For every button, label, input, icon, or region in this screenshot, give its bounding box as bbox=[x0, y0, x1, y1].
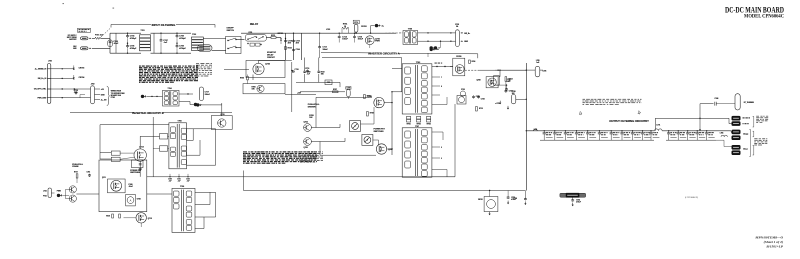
electrolytic capacitor C712 bbox=[353, 20, 359, 24]
bracket 2 bbox=[753, 130, 754, 132]
capacitor C720 bbox=[346, 87, 351, 90]
svg-text:J702: J702 bbox=[91, 84, 95, 86]
mosfet Q702 bbox=[253, 63, 264, 74]
svg-text:STAGE: STAGE bbox=[72, 165, 79, 168]
svg-text:SWITCHES: SWITCHES bbox=[130, 172, 141, 174]
svg-text:DC SUPPLY: DC SUPPLY bbox=[68, 35, 77, 37]
capacitor C703 bbox=[109, 33, 111, 53]
service note paragraph bbox=[139, 66, 141, 67]
wire box to bus bbox=[489, 191, 491, 197]
svg-text:.1uF: .1uF bbox=[307, 74, 310, 76]
svg-text:+ C729: + C729 bbox=[495, 103, 500, 105]
ground below box bbox=[489, 212, 491, 214]
output rail after L701 bbox=[662, 130, 731, 132]
resistor R712 bbox=[505, 77, 507, 82]
capacitor C755 bbox=[507, 191, 509, 197]
connector terminal A9 minus bbox=[732, 145, 741, 150]
capacitor C708 bbox=[176, 33, 177, 34]
top rail to inverter A bbox=[241, 32, 396, 34]
note text block push-pull bbox=[300, 151, 302, 154]
snubber box R718 bbox=[160, 146, 168, 151]
vertical link x215 bbox=[215, 129, 217, 165]
filter capacitor C731 bbox=[554, 130, 555, 131]
svg-text:TP701: TP701 bbox=[406, 124, 410, 126]
left rail inverter B bbox=[152, 117, 154, 177]
svg-text:ON_OFF_CTRL: ON_OFF_CTRL bbox=[34, 89, 46, 91]
test point pair TP703 bbox=[427, 116, 431, 119]
svg-text:C725: C725 bbox=[481, 99, 485, 101]
wire ON_OFF_CTRL bbox=[47, 88, 50, 90]
snubber capacitor row C750 C751 C752 bbox=[169, 176, 170, 177]
scan speck 1 bbox=[63, 3, 64, 4]
svg-text:PWM: PWM bbox=[57, 191, 62, 193]
vertical rail x293 bbox=[293, 33, 295, 60]
svg-text:P701: P701 bbox=[111, 97, 115, 99]
svg-text:100uF: 100uF bbox=[342, 39, 348, 41]
inverter circuitry A label line bbox=[321, 51, 371, 54]
svg-text:DRIVER: DRIVER bbox=[308, 107, 316, 109]
svg-text:R723: R723 bbox=[288, 47, 292, 49]
svg-text:100uF: 100uF bbox=[358, 39, 364, 41]
capacitor C711 bbox=[293, 40, 295, 41]
wire top feed bbox=[259, 59, 292, 61]
snubber box R717 bbox=[160, 134, 168, 139]
wire PWR GND to J702 bbox=[62, 97, 90, 99]
ground below C755 bbox=[507, 201, 509, 203]
T706 output wires bbox=[195, 191, 216, 193]
wire A+_SENSE_HI bbox=[47, 68, 50, 70]
dash-dot output wire bbox=[465, 69, 480, 71]
svg-text:4700pF: 4700pF bbox=[179, 37, 186, 40]
pass transistor Q701 bbox=[365, 36, 374, 45]
off-page connector T703 top bbox=[430, 48, 433, 51]
wire to startup transistor bbox=[202, 104, 222, 106]
svg-text:PWR: PWR bbox=[375, 41, 380, 43]
svg-text:Q711: Q711 bbox=[102, 177, 106, 179]
svg-text:MPN/09TEM8—O: MPN/09TEM8—O bbox=[754, 236, 783, 240]
off-page connector output B bbox=[194, 103, 197, 106]
capacitor C704 bbox=[127, 33, 128, 34]
svg-text:CR704: CR704 bbox=[79, 76, 85, 79]
ground return bus bbox=[405, 190, 525, 192]
svg-text:L701: L701 bbox=[656, 125, 660, 127]
gate network box R716 bbox=[111, 157, 120, 161]
resistor R705 bbox=[247, 77, 249, 80]
transistor Q703 bbox=[257, 85, 264, 92]
svg-text:.01uF: .01uF bbox=[128, 186, 132, 188]
connector terminal A+ MAIN bbox=[732, 116, 741, 121]
svg-text:R701: R701 bbox=[271, 35, 275, 37]
wires crossing J703 bbox=[47, 68, 50, 70]
wire snubber to T705 bbox=[168, 135, 169, 137]
T705 secondary wires bbox=[187, 128, 216, 130]
svg-text:C753: C753 bbox=[87, 172, 91, 174]
wire label near taps bbox=[435, 62, 437, 65]
scan speck 2 bbox=[113, 8, 115, 9]
svg-text:B/1501+LP: B/1501+LP bbox=[765, 244, 783, 248]
long bus y177 bbox=[147, 176, 455, 178]
wire driver top rail bbox=[300, 91, 345, 93]
capacitor C754 bbox=[572, 198, 574, 200]
inverter circuitry B label line bbox=[70, 111, 134, 113]
bracket 1 bbox=[753, 115, 754, 117]
filter capacitor C734 bbox=[587, 130, 588, 131]
svg-text:C751: C751 bbox=[177, 179, 181, 181]
capacitor C714 bbox=[338, 33, 340, 35]
capacitor C716 bbox=[74, 92, 75, 94]
svg-text:4700pF: 4700pF bbox=[179, 47, 186, 50]
ground below C754 bbox=[572, 203, 574, 205]
section label INPUT FILTERING with bracket bbox=[111, 24, 151, 26]
transformer T707 bbox=[402, 128, 432, 177]
T702 lower winding bbox=[198, 45, 213, 52]
svg-text:R713: R713 bbox=[479, 108, 483, 110]
snubber verticals under inverter A line bbox=[304, 58, 306, 71]
filter capacitor C745 bbox=[697, 130, 698, 131]
wire to thermistor branch bbox=[699, 104, 701, 130]
wire T706 primary bbox=[147, 193, 172, 195]
mosfet Q711 bbox=[111, 180, 122, 191]
svg-text:SW_B+_HI: SW_B+_HI bbox=[38, 78, 47, 80]
svg-text:C760: C760 bbox=[307, 72, 311, 74]
T703 secondary out wire bbox=[432, 66, 453, 68]
connector J702 box bbox=[91, 86, 95, 104]
pointer glyph 1 bbox=[579, 111, 582, 115]
wire secondary to bus bbox=[495, 69, 526, 71]
T707 secondary taps bbox=[432, 131, 443, 133]
diode CR704 bbox=[73, 78, 75, 80]
svg-text:T705: T705 bbox=[178, 121, 182, 123]
filter capacitor C732 bbox=[565, 130, 566, 131]
svg-text:.1uF: .1uF bbox=[74, 92, 77, 94]
svg-text:INPUT FROM: INPUT FROM bbox=[67, 37, 77, 39]
vertical link x243 bbox=[243, 171, 245, 191]
capacitor C710 bbox=[285, 40, 287, 41]
transistor Q709 bbox=[69, 186, 76, 193]
wire Q713 drain bbox=[139, 136, 141, 149]
svg-text:A+_SN: A+_SN bbox=[101, 99, 107, 102]
capacitor C764 bbox=[293, 48, 295, 51]
capacitor C705 bbox=[127, 44, 129, 45]
svg-text:220uF: 220uF bbox=[205, 94, 211, 96]
svg-text:OUTPUT FILTERING CIRCUITRY: OUTPUT FILTERING CIRCUITRY bbox=[609, 119, 649, 123]
diode CR703 bbox=[73, 68, 75, 70]
wire +14V rail bbox=[285, 94, 316, 96]
test point pair TP702 bbox=[417, 116, 421, 119]
capacitor C753 bbox=[89, 174, 91, 175]
mosfet Q706 bbox=[374, 97, 384, 107]
svg-text:RELAY: RELAY bbox=[250, 23, 259, 26]
vertical rail x285 bbox=[285, 33, 287, 60]
resistor R707 bbox=[333, 91, 339, 93]
wire bank to A9 minus bbox=[716, 139, 724, 141]
svg-text:100uF: 100uF bbox=[323, 49, 329, 51]
svg-text:T701: T701 bbox=[141, 30, 145, 32]
arrow SW B+ bbox=[461, 32, 463, 34]
off-page connector pair below bbox=[430, 46, 433, 49]
svg-text:T706: T706 bbox=[180, 186, 184, 188]
zener VR702 bbox=[487, 200, 496, 209]
gate drive wires from left bbox=[100, 152, 111, 154]
filter capacitor C743 bbox=[678, 130, 679, 131]
svg-text:A+_SENSE_HI: A+_SENSE_HI bbox=[35, 67, 47, 70]
wire y82 with boxed label bbox=[296, 81, 340, 83]
svg-text:R707: R707 bbox=[333, 89, 337, 91]
Q702 enclosure box bbox=[246, 61, 285, 78]
transistor Q705 bbox=[304, 138, 312, 146]
svg-text:.01uF: .01uF bbox=[113, 43, 119, 45]
gate network box R715 bbox=[111, 151, 120, 155]
dashed leader to bracket bbox=[101, 28, 111, 37]
filter capacitor C733 bbox=[576, 130, 577, 131]
svg-text:CR705: CR705 bbox=[456, 56, 461, 58]
svg-text:R720: R720 bbox=[106, 215, 110, 217]
filter box rails bbox=[110, 32, 141, 34]
svg-text:Q702: Q702 bbox=[265, 64, 270, 66]
capacitor C718 bbox=[291, 70, 292, 71]
arrow ground out bbox=[461, 40, 463, 42]
gate wire to Q702 bbox=[224, 69, 249, 71]
secondary frame wires bbox=[454, 104, 456, 177]
electrolytic capacitor C717 bbox=[199, 87, 203, 101]
source capacitor C762 bbox=[139, 162, 141, 165]
relay coil parts bbox=[250, 43, 254, 46]
svg-text:Q705: Q705 bbox=[304, 147, 308, 149]
source capacitor C763 bbox=[139, 167, 141, 170]
svg-text:CR702: CR702 bbox=[361, 26, 367, 28]
svg-text:4700pF: 4700pF bbox=[130, 37, 137, 40]
svg-text:T702: T702 bbox=[192, 34, 196, 36]
svg-text:CR703: CR703 bbox=[79, 67, 85, 69]
svg-text:INVERTER CIRCUITRY B: INVERTER CIRCUITRY B bbox=[132, 111, 164, 115]
vertical rail x301 bbox=[301, 33, 303, 60]
wire to startup connector bbox=[62, 88, 90, 90]
current sense A1 bbox=[126, 194, 136, 206]
wire driver to gate box bbox=[76, 193, 99, 195]
svg-text:R719: R719 bbox=[74, 172, 78, 174]
svg-text:R709: R709 bbox=[370, 113, 374, 115]
rectifier diode CR706 bbox=[457, 96, 466, 105]
resistor R724 bbox=[469, 60, 471, 63]
svg-text:.1uF: .1uF bbox=[178, 180, 181, 182]
driver IC U703 bbox=[362, 135, 373, 146]
resistor R723 bbox=[285, 47, 287, 50]
vertical bus to gnd tail bbox=[524, 191, 526, 199]
J702 output stubs bbox=[95, 88, 101, 90]
svg-text:SW_B+: SW_B+ bbox=[464, 33, 470, 35]
svg-text:R705: R705 bbox=[240, 77, 244, 79]
wire SW_B+_HI bbox=[47, 77, 50, 79]
regulator group box bbox=[484, 197, 498, 212]
svg-text:C712: C712 bbox=[354, 22, 358, 24]
svg-text:RT_THERMIS: RT_THERMIS bbox=[744, 102, 754, 104]
svg-text:4700pF: 4700pF bbox=[130, 47, 137, 50]
svg-text:C752: C752 bbox=[186, 179, 190, 181]
wire Q713 source bbox=[139, 161, 141, 177]
connector terminal A+ AUX bbox=[732, 121, 741, 126]
resistor R713 bbox=[476, 107, 478, 112]
thermistor RT701 bbox=[735, 94, 740, 110]
capacitor C722 bbox=[505, 90, 507, 91]
mosfet Q707 bbox=[376, 144, 386, 154]
connector terminal A9 plus bbox=[730, 131, 733, 133]
svg-text:.1uF: .1uF bbox=[187, 180, 190, 182]
note connects to rf power board bbox=[756, 115, 759, 118]
T708 secondary wires bbox=[418, 32, 456, 34]
capacitor C707 bbox=[160, 33, 161, 34]
output rail bbox=[526, 130, 654, 132]
resistor R710 bbox=[364, 95, 366, 99]
svg-text:J703: J703 bbox=[48, 61, 52, 63]
filter capacitor C742 bbox=[668, 130, 669, 131]
svg-text:A: A bbox=[130, 198, 132, 202]
svg-text:C726: C726 bbox=[543, 70, 547, 72]
svg-text:B+: B+ bbox=[437, 49, 439, 51]
capacitor C709 bbox=[176, 44, 178, 45]
svg-text:R722: R722 bbox=[321, 72, 325, 74]
feed to A+ AUX connector bbox=[728, 118, 730, 123]
svg-text:L705: L705 bbox=[536, 60, 540, 62]
mosfet Q711 box bbox=[108, 179, 126, 193]
capacitor C713 bbox=[319, 33, 321, 46]
T703 secondary taps bbox=[432, 76, 440, 78]
svg-text:Q708: Q708 bbox=[476, 80, 480, 82]
vertical bus x526 bbox=[525, 63, 527, 191]
small box U705 top bbox=[132, 160, 144, 168]
transistor Q704 bbox=[304, 124, 312, 132]
capacitor C715 bbox=[354, 33, 356, 35]
svg-text:(L702 SHIELD): (L702 SHIELD) bbox=[685, 197, 698, 199]
svg-text:C728: C728 bbox=[512, 91, 516, 93]
output ground rail bbox=[540, 139, 654, 141]
wire plug to fuse bbox=[89, 37, 91, 39]
rectifier box CR705 bbox=[453, 58, 465, 76]
svg-text:10: 10 bbox=[344, 26, 346, 28]
gate feed wires bbox=[316, 96, 372, 98]
resistor R701 bbox=[271, 37, 276, 39]
note text combined output bbox=[583, 98, 586, 101]
filter capacitor C737 bbox=[621, 130, 622, 131]
filter capacitor C735 bbox=[599, 130, 600, 131]
svg-text:Q712: Q712 bbox=[148, 218, 152, 220]
note connects to rf power amplifier bbox=[754, 137, 757, 140]
off-page connector below C717 bbox=[196, 103, 199, 106]
output ground rail 2 bbox=[666, 139, 716, 141]
wire to startup box bbox=[221, 103, 223, 116]
interconnect brace bbox=[107, 86, 110, 105]
service note paragraph 2 bbox=[243, 151, 247, 152]
dash-dot wire to T708 bbox=[385, 32, 403, 34]
capacitor C723 round bbox=[460, 91, 465, 96]
wires FETs to transformer bus bbox=[384, 102, 392, 104]
resistor R714 bbox=[494, 76, 500, 85]
svg-text:MODEL CPN6064C: MODEL CPN6064C bbox=[744, 13, 784, 19]
filter capacitor C736 bbox=[611, 130, 612, 131]
wires driver outputs bbox=[311, 127, 340, 129]
svg-text:.1uF: .1uF bbox=[169, 180, 172, 182]
off-page connector from PWM A bbox=[141, 95, 144, 98]
mosfet Q712 bbox=[136, 213, 146, 223]
T704 secondary wires bbox=[179, 93, 193, 95]
svg-text:SWITCHES: SWITCHES bbox=[374, 131, 385, 133]
inverter C box bbox=[99, 160, 147, 212]
filter capacitor C738 bbox=[632, 130, 633, 131]
svg-text:C764: C764 bbox=[296, 48, 300, 51]
resistor R709 bbox=[367, 112, 369, 117]
connector J701 sense header bbox=[47, 64, 50, 104]
resistor R720 bbox=[112, 214, 114, 218]
connector P701 boxed label bbox=[78, 28, 91, 32]
ground symbol 2 bbox=[507, 106, 509, 108]
svg-text:C756: C756 bbox=[513, 198, 517, 200]
shielded inductor L702 bbox=[560, 193, 586, 197]
filter capacitor C746 bbox=[706, 130, 707, 131]
bracket tall bbox=[749, 129, 750, 131]
connector terminal A9 pair2 bbox=[732, 135, 741, 140]
filter capacitor C740 bbox=[650, 130, 651, 131]
ground symbol bbox=[499, 101, 501, 103]
pointer glyph 2 bbox=[638, 111, 641, 115]
svg-text:SWITCH: SWITCH bbox=[227, 30, 235, 32]
parts list text column bbox=[196, 62, 199, 65]
svg-text:C718: C718 bbox=[295, 69, 299, 71]
svg-text:Q704: Q704 bbox=[304, 120, 308, 123]
bracket 3 bbox=[753, 144, 754, 146]
capacitor C725 bbox=[478, 95, 480, 96]
off-page connector A+ to sheet 2 bbox=[370, 26, 372, 34]
capacitor C719 bbox=[307, 70, 309, 71]
svg-text:PWR_GND: PWR_GND bbox=[38, 97, 47, 99]
svg-text:C761: C761 bbox=[327, 82, 331, 84]
svg-text:CIRCUIT: CIRCUIT bbox=[267, 57, 276, 59]
connector terminal A9 minus b bbox=[732, 150, 741, 155]
capacitor C727 bbox=[506, 87, 508, 90]
wire rail to T703 bbox=[401, 58, 403, 92]
svg-text:C719: C719 bbox=[305, 68, 309, 70]
driver stage box bbox=[243, 84, 285, 94]
resistor R721 bbox=[119, 214, 121, 218]
T703 primary feed wires bbox=[392, 91, 402, 93]
vertical rail x291.8 bbox=[291, 62, 293, 112]
svg-text:VR702: VR702 bbox=[478, 199, 483, 201]
filter capacitor C730 bbox=[544, 130, 545, 131]
test point pair TP701 bbox=[407, 116, 411, 119]
svg-text:INVERTER CIRCUITRY A: INVERTER CIRCUITRY A bbox=[368, 52, 399, 56]
transistor Q710 bbox=[69, 195, 76, 202]
svg-text:INPUT FILTERING: INPUT FILTERING bbox=[152, 23, 176, 27]
svg-text:TP703: TP703 bbox=[426, 124, 430, 126]
svg-text:L703: L703 bbox=[326, 29, 330, 31]
driver IC U702 bbox=[350, 121, 361, 132]
transformer T703 bbox=[402, 64, 432, 114]
svg-text:F701 15A: F701 15A bbox=[95, 34, 104, 37]
svg-text:U705: U705 bbox=[137, 198, 141, 200]
filter mid box rails bbox=[151, 32, 192, 34]
wire PWR_GND bbox=[47, 97, 50, 99]
filter capacitor C744 bbox=[687, 130, 688, 131]
capacitor C724 bbox=[473, 95, 475, 96]
filter capacitor C739 bbox=[642, 130, 643, 131]
wire lower parallel line bbox=[322, 57, 402, 59]
resistor R719 bbox=[76, 174, 78, 178]
frame corner wires bbox=[655, 117, 729, 119]
svg-text:C723: C723 bbox=[461, 89, 465, 91]
resistor R704 bypass bbox=[341, 28, 343, 33]
svg-text:(Sheet 1 of 2): (Sheet 1 of 2) bbox=[764, 240, 783, 244]
svg-text:C750: C750 bbox=[168, 179, 172, 181]
svg-text:T704: T704 bbox=[168, 87, 172, 90]
